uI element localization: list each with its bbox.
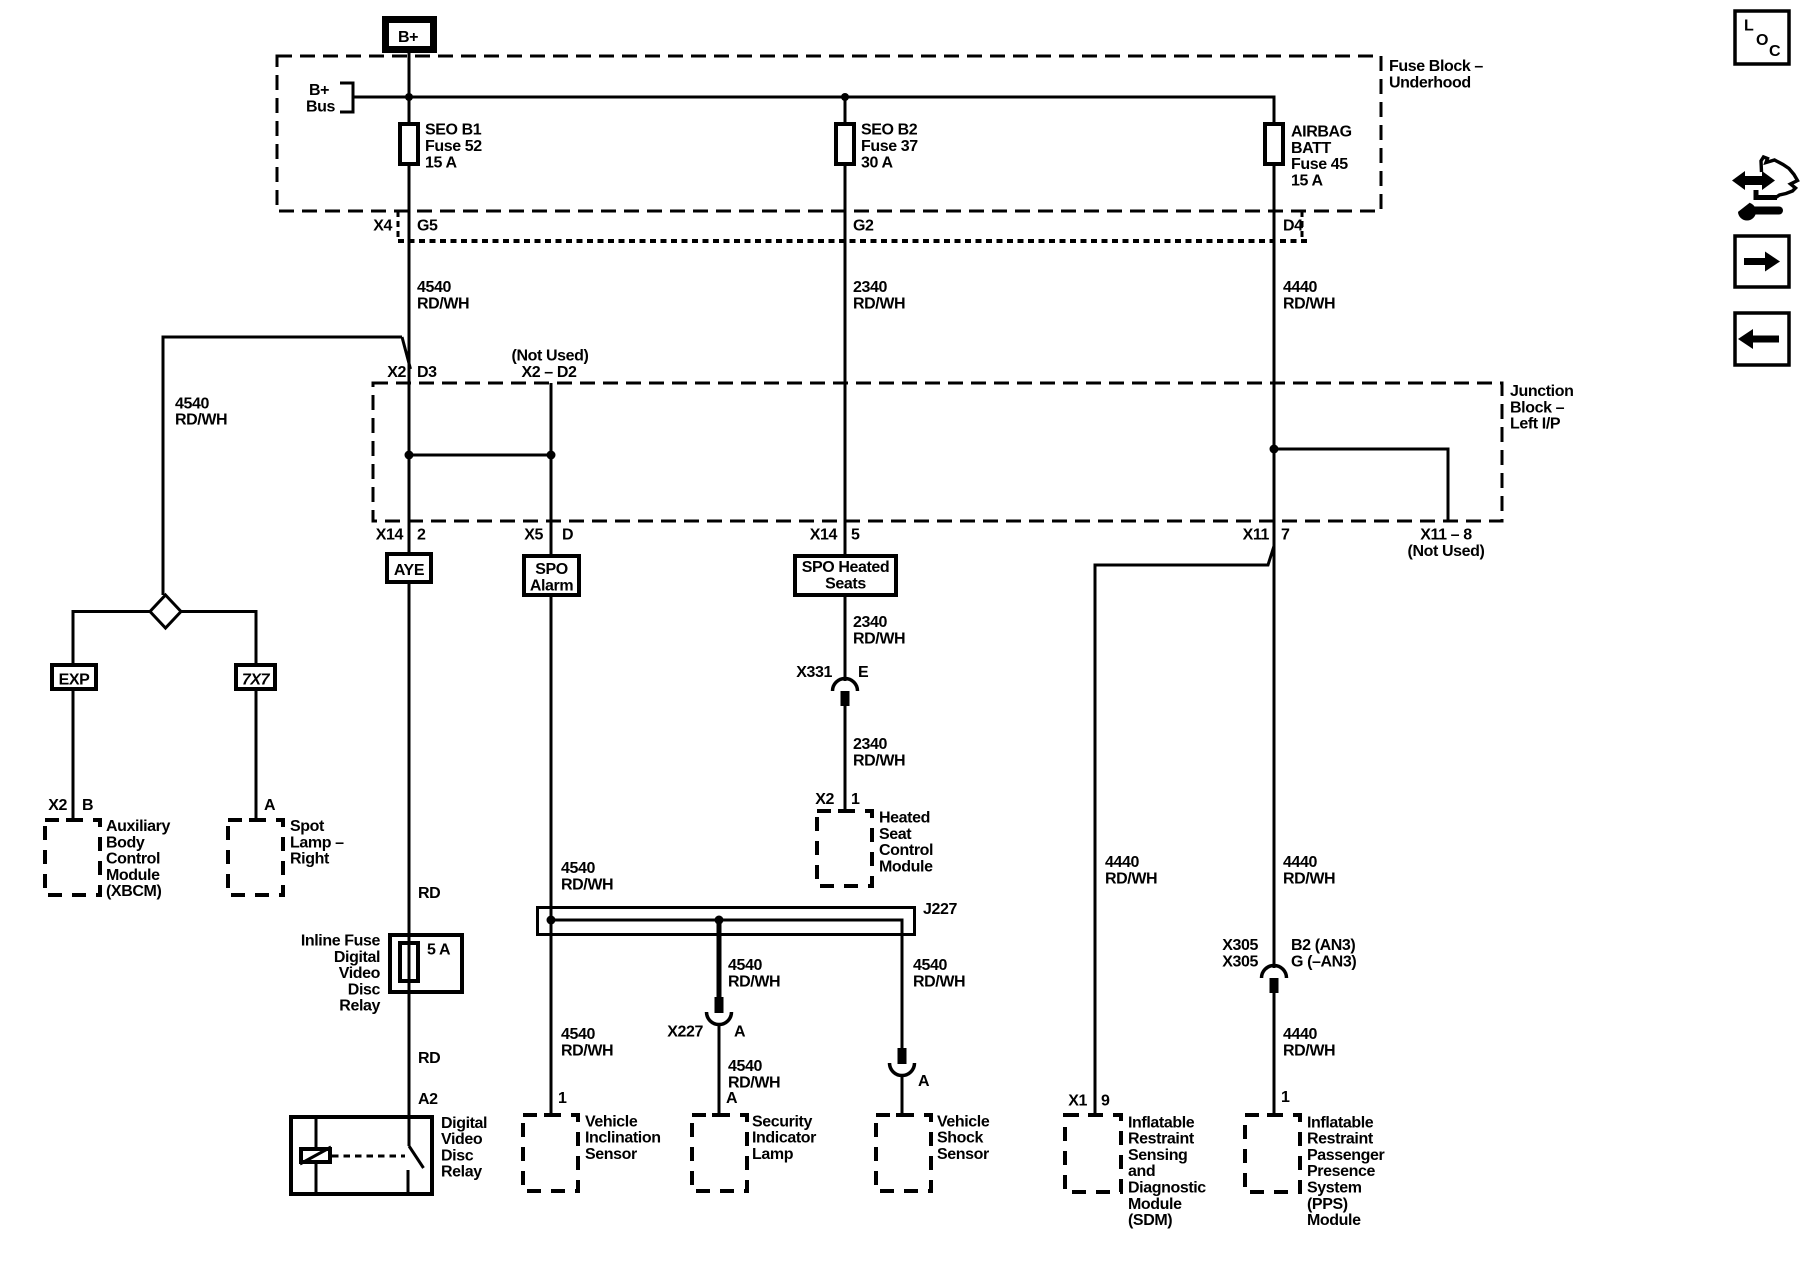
svg-text:4440: 4440: [1283, 854, 1317, 871]
svg-text:AIRBAG: AIRBAG: [1291, 124, 1352, 141]
svg-text:RD/WH: RD/WH: [853, 295, 905, 312]
svg-text:Diagnostic: Diagnostic: [1128, 1180, 1206, 1197]
svg-text:Junction: Junction: [1510, 383, 1573, 400]
svg-text:Left I/P: Left I/P: [1510, 416, 1561, 433]
wire X2-D2 stub: [550, 383, 553, 556]
svg-text:Disc: Disc: [348, 981, 381, 998]
svg-text:5 A: 5 A: [427, 942, 451, 959]
wire splice to 7X7: [181, 612, 256, 664]
module heated seat control module: [817, 810, 933, 887]
wire X227 to lamp: [718, 1025, 721, 1115]
label SPO Heated Seats: [795, 556, 896, 595]
svg-text:G (–AN3): G (–AN3): [1291, 953, 1356, 970]
label AYE: [387, 554, 431, 582]
svg-text:Fuse 45: Fuse 45: [1291, 156, 1348, 173]
svg-text:Inclination: Inclination: [585, 1130, 661, 1147]
connector strip X4 row dotted line: [398, 239, 1310, 243]
module vehicle inclination sensor: [523, 1113, 661, 1191]
wire EXP to XBCM: [72, 689, 75, 820]
svg-text:4540: 4540: [913, 957, 947, 974]
svg-text:RD: RD: [418, 1050, 440, 1067]
svg-text:SEO B2: SEO B2: [861, 122, 918, 139]
svg-text:SEO B1: SEO B1: [425, 122, 482, 139]
relay switch arm: [409, 1146, 424, 1168]
svg-text:Fuse 37: Fuse 37: [861, 138, 918, 155]
svg-text:Digital: Digital: [441, 1115, 487, 1132]
connector strip right separator: [1301, 211, 1304, 241]
icon back arrow box: [1735, 313, 1789, 365]
svg-text:B+: B+: [398, 29, 418, 46]
svg-text:4540: 4540: [728, 1058, 762, 1075]
wire diagonal tap at X2 D3: [402, 337, 411, 369]
wire J227 to shock connector: [901, 936, 904, 1048]
svg-text:Bus: Bus: [306, 98, 336, 115]
svg-text:4540: 4540: [175, 395, 209, 412]
node dot jumper right: [547, 451, 556, 460]
svg-text:4540: 4540: [417, 279, 451, 296]
svg-text:Sensing: Sensing: [1128, 1147, 1187, 1164]
connector strip left separator: [397, 211, 400, 241]
svg-text:D: D: [562, 527, 573, 544]
connector shock cup: [890, 1063, 915, 1076]
svg-text:SPO: SPO: [535, 561, 568, 578]
svg-text:15 A: 15 A: [425, 154, 457, 171]
fuse inline 5A box: [390, 935, 462, 992]
module XBCM dashed box: [45, 818, 170, 900]
connector X305 cup: [1262, 966, 1287, 979]
wire X305 to PPS: [1273, 993, 1276, 1114]
svg-text:RD/WH: RD/WH: [1283, 295, 1335, 312]
svg-text:X2 – D2: X2 – D2: [521, 364, 577, 381]
svg-text:Restraint: Restraint: [1307, 1131, 1374, 1148]
fuse SEO B2 Fuse 37 30 A: [836, 122, 918, 172]
svg-text:Fuse Block –: Fuse Block –: [1389, 58, 1483, 75]
svg-text:A: A: [734, 1024, 746, 1041]
wire branch to XBCM splice: [163, 337, 402, 595]
svg-text:(Not Used): (Not Used): [512, 348, 589, 365]
relay actuator dashed link: [332, 1155, 405, 1158]
svg-text:(XBCM): (XBCM): [106, 883, 161, 900]
wire junction block internal jumper: [409, 454, 551, 457]
svg-text:X2: X2: [815, 791, 834, 808]
svg-text:4440: 4440: [1283, 279, 1317, 296]
svg-text:Sensor: Sensor: [585, 1146, 637, 1163]
svg-text:Seat: Seat: [879, 826, 912, 843]
svg-text:(SDM): (SDM): [1128, 1212, 1172, 1229]
wire AYE to relay: [408, 582, 411, 1146]
svg-text:Control: Control: [879, 842, 933, 859]
icon LOC box: [1735, 11, 1789, 64]
connector X331 cup: [833, 679, 858, 692]
module PPS dashed box: [1245, 1114, 1385, 1229]
svg-text:B+: B+: [309, 82, 329, 99]
wire J227 internal bus: [551, 920, 902, 936]
svg-text:Heated: Heated: [879, 810, 930, 827]
svg-text:and: and: [1128, 1163, 1155, 1180]
svg-text:Presence: Presence: [1307, 1163, 1375, 1180]
wire 7X7 to spot lamp: [255, 689, 258, 820]
svg-text:X1: X1: [1068, 1093, 1087, 1110]
svg-text:2340: 2340: [853, 279, 887, 296]
svg-text:Sensor: Sensor: [937, 1146, 989, 1163]
svg-text:9: 9: [1101, 1093, 1110, 1110]
svg-text:C: C: [1769, 43, 1781, 60]
connector X331 terminal: [841, 691, 850, 706]
svg-text:Module: Module: [106, 867, 160, 884]
svg-text:RD/WH: RD/WH: [853, 752, 905, 769]
svg-text:Video: Video: [441, 1131, 483, 1148]
svg-text:(PPS): (PPS): [1307, 1196, 1348, 1213]
svg-text:X4: X4: [373, 218, 392, 235]
svg-text:X305: X305: [1222, 953, 1258, 970]
svg-text:A2: A2: [418, 1091, 438, 1108]
wire SPO alarm to J227: [550, 595, 553, 1114]
wire SPO heated seats down: [844, 595, 847, 681]
svg-text:System: System: [1307, 1180, 1362, 1197]
svg-text:Module: Module: [1307, 1212, 1361, 1229]
svg-text:Spot: Spot: [290, 818, 325, 835]
wire connector to shock sensor: [901, 1076, 904, 1115]
svg-text:4440: 4440: [1283, 1026, 1317, 1043]
svg-text:RD/WH: RD/WH: [1105, 870, 1157, 887]
svg-text:X331: X331: [796, 664, 832, 681]
svg-text:7: 7: [1281, 527, 1290, 544]
wire fuse B2 down: [844, 164, 847, 556]
svg-text:Auxiliary: Auxiliary: [106, 818, 170, 835]
svg-text:RD/WH: RD/WH: [561, 876, 613, 893]
svg-text:2340: 2340: [853, 736, 887, 753]
svg-text:Control: Control: [106, 851, 160, 868]
wire SEO B2 drop: [844, 97, 847, 122]
relay fixed contact: [407, 1170, 410, 1194]
relay label: [441, 1115, 487, 1181]
svg-text:B: B: [82, 797, 93, 814]
svg-text:Right: Right: [290, 851, 330, 868]
svg-text:Inflatable: Inflatable: [1128, 1114, 1195, 1131]
svg-text:Inflatable: Inflatable: [1307, 1114, 1374, 1131]
wire B+ drop: [408, 53, 411, 122]
wire X331 to heated seat module: [844, 706, 847, 810]
svg-text:Relay: Relay: [441, 1164, 482, 1181]
svg-text:RD/WH: RD/WH: [853, 630, 905, 647]
module security indicator lamp: [692, 1113, 816, 1191]
connector X227 terminal: [715, 997, 724, 1013]
svg-text:RD/WH: RD/WH: [1283, 1042, 1335, 1059]
label inline fuse relay: [301, 933, 381, 1015]
svg-text:Shock: Shock: [937, 1130, 984, 1147]
svg-text:Security: Security: [752, 1113, 812, 1130]
svg-text:X5: X5: [524, 527, 543, 544]
node dot X11 jumper: [1270, 445, 1279, 454]
svg-text:BATT: BATT: [1291, 140, 1331, 157]
connector X305 terminal: [1270, 978, 1279, 993]
svg-text:Disc: Disc: [441, 1147, 474, 1164]
fuse AIRBAG BATT Fuse 45 15 A: [1265, 124, 1352, 190]
svg-text:G5: G5: [417, 218, 438, 235]
module SDM dashed box: [1065, 1114, 1206, 1229]
svg-text:(Not Used): (Not Used): [1408, 543, 1485, 560]
svg-text:X14: X14: [376, 527, 404, 544]
svg-text:X2: X2: [387, 364, 406, 381]
svg-text:D4: D4: [1283, 218, 1303, 235]
svg-text:Seats: Seats: [825, 575, 866, 592]
label 7X7: [236, 665, 275, 689]
svg-text:Indicator: Indicator: [752, 1130, 816, 1147]
svg-text:Relay: Relay: [339, 998, 380, 1015]
icon pointer tools: [1732, 157, 1798, 221]
svg-text:Lamp: Lamp: [752, 1146, 794, 1163]
svg-text:Alarm: Alarm: [530, 577, 574, 594]
power symbol B+: [386, 20, 434, 50]
wire junction block X11 jumper: [1274, 449, 1448, 521]
svg-text:Lamp –: Lamp –: [290, 834, 344, 851]
svg-text:E: E: [858, 664, 869, 681]
svg-text:B2 (AN3): B2 (AN3): [1291, 937, 1355, 954]
svg-text:X11 – 8: X11 – 8: [1420, 527, 1472, 544]
svg-text:Fuse 52: Fuse 52: [425, 138, 482, 155]
node dot J227 left: [547, 916, 556, 925]
splice diamond: [150, 595, 181, 628]
svg-text:Vehicle: Vehicle: [585, 1113, 638, 1130]
svg-text:RD/WH: RD/WH: [728, 1074, 780, 1091]
svg-text:Block –: Block –: [1510, 399, 1565, 416]
svg-text:4440: 4440: [1105, 854, 1139, 871]
svg-text:Video: Video: [339, 965, 381, 982]
svg-text:Inline Fuse: Inline Fuse: [301, 933, 381, 950]
wire fuse B1 to junction block: [408, 164, 411, 554]
wire B+ bus: [353, 97, 1274, 122]
svg-text:RD/WH: RD/WH: [913, 973, 965, 990]
svg-text:2340: 2340: [853, 614, 887, 631]
svg-text:4540: 4540: [728, 957, 762, 974]
svg-text:4540: 4540: [561, 1026, 595, 1043]
svg-text:Passenger: Passenger: [1307, 1147, 1385, 1164]
wire J227 to X227 thick: [717, 920, 722, 998]
svg-text:1: 1: [1281, 1089, 1290, 1106]
svg-text:Body: Body: [106, 834, 145, 851]
svg-text:7X7: 7X7: [242, 672, 271, 689]
wire SDM branch: [1095, 546, 1274, 1114]
svg-text:RD: RD: [418, 885, 440, 902]
svg-text:X305: X305: [1222, 937, 1258, 954]
svg-text:J227: J227: [923, 901, 957, 918]
svg-text:RD/WH: RD/WH: [1283, 870, 1335, 887]
svg-text:G2: G2: [853, 218, 874, 235]
connector X227 cup: [707, 1012, 732, 1025]
svg-text:1: 1: [851, 791, 860, 808]
wire fuse AIRBAG down: [1273, 164, 1276, 968]
svg-text:X14: X14: [810, 527, 838, 544]
svg-text:L: L: [1744, 18, 1754, 35]
svg-text:RD/WH: RD/WH: [728, 973, 780, 990]
svg-text:D3: D3: [417, 364, 437, 381]
fuse SEO B1 Fuse 52 15 A: [400, 122, 482, 172]
splice pack J227: [538, 901, 958, 935]
svg-text:X2: X2: [48, 797, 67, 814]
fuse block underhood dashed box: [277, 56, 1381, 211]
svg-text:X227: X227: [667, 1024, 703, 1041]
module spot lamp right dashed box: [228, 818, 344, 895]
label SPO Alarm: [524, 556, 579, 595]
svg-text:SPO Heated: SPO Heated: [802, 559, 890, 576]
wire splice to EXP: [73, 612, 150, 664]
svg-text:Digital: Digital: [334, 949, 380, 966]
svg-text:AYE: AYE: [394, 562, 425, 579]
svg-text:30 A: 30 A: [861, 154, 893, 171]
node dot jumper left: [405, 451, 414, 460]
svg-text:2: 2: [417, 527, 426, 544]
svg-text:A: A: [726, 1090, 738, 1107]
node junction dot B+/bus: [405, 93, 413, 101]
svg-text:4540: 4540: [561, 860, 595, 877]
svg-text:Module: Module: [879, 858, 933, 875]
svg-text:O: O: [1756, 32, 1768, 49]
svg-text:15 A: 15 A: [1291, 172, 1323, 189]
node junction dot bus/SEO B2: [841, 93, 849, 101]
svg-text:Restraint: Restraint: [1128, 1131, 1195, 1148]
icon forward arrow box: [1735, 236, 1789, 287]
svg-text:Vehicle: Vehicle: [937, 1113, 990, 1130]
svg-text:Module: Module: [1128, 1196, 1182, 1213]
junction block left I/P dashed box: [373, 383, 1502, 521]
label EXP: [52, 665, 96, 689]
svg-text:A: A: [264, 797, 276, 814]
svg-text:1: 1: [558, 1090, 567, 1107]
svg-text:RD/WH: RD/WH: [175, 412, 227, 429]
node dot J227 middle: [715, 916, 724, 925]
relay Digital Video Disc Relay: [291, 1117, 432, 1194]
connector shock terminal: [898, 1048, 907, 1064]
svg-text:RD/WH: RD/WH: [417, 295, 469, 312]
svg-text:A: A: [918, 1073, 930, 1090]
module vehicle shock sensor: [876, 1113, 990, 1191]
B+ bus bracket: [340, 83, 353, 112]
svg-text:EXP: EXP: [59, 672, 91, 689]
svg-text:5: 5: [851, 527, 860, 544]
relay coil: [315, 1117, 318, 1149]
svg-text:Underhood: Underhood: [1389, 74, 1471, 91]
svg-text:RD/WH: RD/WH: [561, 1042, 613, 1059]
svg-text:X11: X11: [1243, 527, 1270, 544]
